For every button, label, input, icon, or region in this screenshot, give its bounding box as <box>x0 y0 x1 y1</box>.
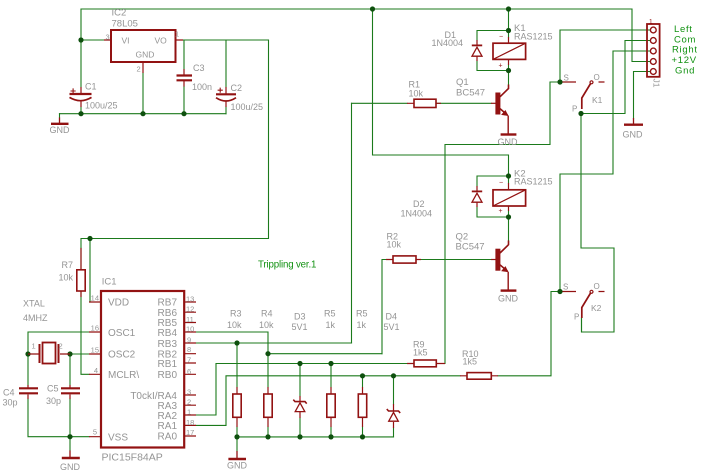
svg-text:RB1: RB1 <box>158 359 178 370</box>
svg-text:R5: R5 <box>324 309 336 319</box>
svg-text:+: + <box>499 208 503 215</box>
svg-text:30p: 30p <box>46 396 61 406</box>
svg-text:1: 1 <box>32 342 36 351</box>
svg-text:RA1: RA1 <box>158 421 178 432</box>
svg-text:MCLR\: MCLR\ <box>108 370 139 381</box>
svg-text:6: 6 <box>187 367 191 376</box>
svg-text:BC547: BC547 <box>456 241 485 252</box>
svg-text:S: S <box>563 283 568 292</box>
svg-text:5: 5 <box>93 428 97 437</box>
svg-text:13: 13 <box>186 295 194 304</box>
svg-text:1N4004: 1N4004 <box>401 208 433 218</box>
svg-text:R4: R4 <box>261 309 273 319</box>
svg-text:10k: 10k <box>59 272 74 282</box>
svg-text:C4: C4 <box>3 388 15 398</box>
svg-text:GND: GND <box>498 293 519 303</box>
svg-text:OSC1: OSC1 <box>108 328 136 339</box>
svg-text:2: 2 <box>137 65 141 74</box>
svg-text:1: 1 <box>649 19 653 26</box>
svg-text:C5: C5 <box>47 384 59 394</box>
svg-text:R5: R5 <box>356 309 368 319</box>
svg-text:GND: GND <box>227 461 248 471</box>
svg-text:R3: R3 <box>230 309 242 319</box>
svg-text:+: + <box>499 63 503 70</box>
svg-text:GND: GND <box>136 49 155 59</box>
svg-text:2: 2 <box>59 342 63 351</box>
svg-text:RAS1215: RAS1215 <box>514 31 553 41</box>
svg-text:GND: GND <box>498 137 519 147</box>
svg-text:4: 4 <box>94 366 98 375</box>
svg-text:GND: GND <box>50 125 71 135</box>
svg-text:12: 12 <box>186 305 194 314</box>
svg-text:VDD: VDD <box>108 298 129 309</box>
svg-text:RB4: RB4 <box>158 328 178 339</box>
svg-text:C3: C3 <box>193 63 205 73</box>
svg-text:D4: D4 <box>386 312 398 322</box>
svg-text:R7: R7 <box>62 260 74 270</box>
svg-text:D3: D3 <box>294 312 306 322</box>
svg-text:BC547: BC547 <box>456 87 485 98</box>
svg-text:Right: Right <box>672 45 698 56</box>
svg-text:1k: 1k <box>326 320 336 330</box>
svg-text:7: 7 <box>187 356 191 365</box>
svg-text:RB3: RB3 <box>158 339 178 350</box>
svg-text:10k: 10k <box>259 320 274 330</box>
svg-text:100u/25: 100u/25 <box>231 102 264 112</box>
svg-text:16: 16 <box>91 324 99 333</box>
svg-text:100u/25: 100u/25 <box>85 101 118 111</box>
svg-text:J1: J1 <box>652 79 662 88</box>
svg-text:P: P <box>574 312 579 321</box>
svg-text:1: 1 <box>187 408 191 417</box>
svg-text:2: 2 <box>187 398 191 407</box>
svg-text:11: 11 <box>186 315 194 324</box>
svg-text:4MHZ: 4MHZ <box>23 313 48 323</box>
svg-text:K1: K1 <box>592 95 603 105</box>
svg-text:IC2: IC2 <box>112 7 127 18</box>
svg-text:O: O <box>594 282 600 291</box>
svg-text:10k: 10k <box>409 88 424 98</box>
svg-text:10k: 10k <box>387 239 402 249</box>
svg-text:5V1: 5V1 <box>292 322 308 332</box>
svg-text:RB0: RB0 <box>158 370 178 381</box>
svg-text:VI: VI <box>122 35 130 45</box>
svg-text:17: 17 <box>186 428 194 437</box>
svg-text:K2: K2 <box>591 303 602 313</box>
svg-text:9: 9 <box>187 336 191 345</box>
svg-text:XTAL: XTAL <box>23 299 45 309</box>
svg-text:1N4004: 1N4004 <box>432 38 464 48</box>
svg-text:−: − <box>499 34 503 41</box>
svg-text:14: 14 <box>91 294 99 303</box>
svg-text:100n: 100n <box>192 82 212 92</box>
svg-text:10k: 10k <box>227 320 242 330</box>
svg-text:3: 3 <box>106 33 110 42</box>
svg-text:Left: Left <box>674 24 693 35</box>
svg-text:Trippling ver.1: Trippling ver.1 <box>258 260 316 271</box>
svg-text:18: 18 <box>186 418 194 427</box>
svg-text:O: O <box>594 73 600 82</box>
svg-text:VSS: VSS <box>108 432 128 443</box>
svg-text:S: S <box>564 74 569 83</box>
svg-text:GND: GND <box>60 462 81 472</box>
svg-text:30p: 30p <box>3 398 18 408</box>
svg-text:1k5: 1k5 <box>463 357 478 367</box>
svg-text:OSC2: OSC2 <box>108 350 136 361</box>
svg-text:1: 1 <box>175 30 179 39</box>
svg-text:Gnd: Gnd <box>675 66 695 77</box>
svg-text:P: P <box>572 105 577 114</box>
svg-text:1k5: 1k5 <box>413 347 428 357</box>
svg-text:78L05: 78L05 <box>112 19 138 30</box>
svg-text:−: − <box>499 180 503 187</box>
svg-text:VO: VO <box>155 35 168 45</box>
svg-text:C2: C2 <box>231 83 243 93</box>
svg-text:GND: GND <box>623 130 644 140</box>
svg-text:RAS1215: RAS1215 <box>514 176 553 186</box>
svg-text:1k: 1k <box>357 320 367 330</box>
svg-text:C1: C1 <box>85 82 97 92</box>
svg-text:10: 10 <box>186 325 194 334</box>
svg-text:PIC15F84AP: PIC15F84AP <box>102 452 163 464</box>
svg-text:3: 3 <box>187 388 191 397</box>
svg-text:D2: D2 <box>413 199 425 209</box>
svg-text:RA0: RA0 <box>158 432 178 443</box>
svg-text:IC1: IC1 <box>102 276 117 287</box>
svg-text:5V1: 5V1 <box>384 322 400 332</box>
svg-text:15: 15 <box>91 345 99 354</box>
svg-text:8: 8 <box>187 345 191 354</box>
